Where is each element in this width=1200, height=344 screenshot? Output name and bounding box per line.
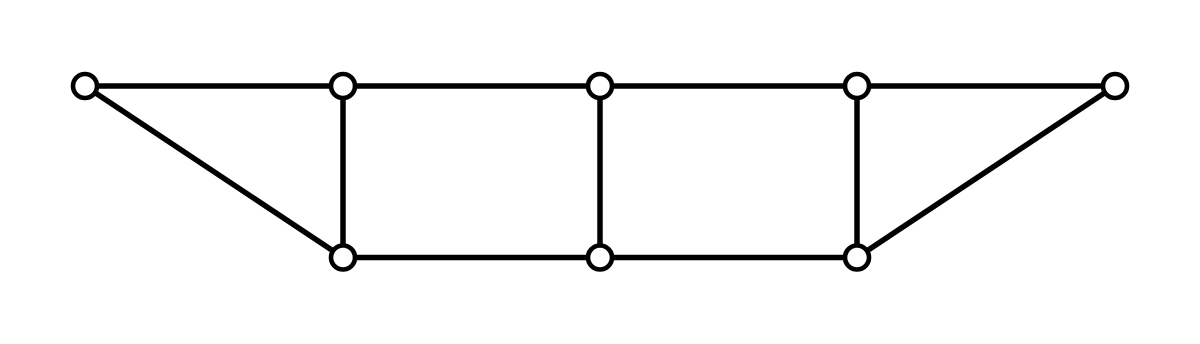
node F (bottom left) [331,246,355,270]
edge C-G (vertical) [597,86,603,258]
edge G-H (bottom horizontal) [600,255,857,261]
edge A-F (left diagonal) [85,86,343,258]
edge D-H (vertical) [854,86,860,258]
node G (bottom middle) [588,246,612,270]
edge B-F (vertical) [340,86,346,258]
node B (top second) [331,74,355,98]
node A (top far left) [73,74,97,98]
edge C-D (top horizontal) [600,83,857,89]
edge B-C (top horizontal) [343,83,600,89]
node E (top far right) [1103,74,1127,98]
edge A-B (top left horizontal) [85,83,343,89]
edge F-G (bottom horizontal) [343,255,600,261]
node C (top middle) [588,74,612,98]
node H (bottom right) [845,246,869,270]
edge D-E (top right horizontal) [857,83,1115,89]
edge H-E (right diagonal) [857,86,1115,258]
node D (top fourth) [845,74,869,98]
